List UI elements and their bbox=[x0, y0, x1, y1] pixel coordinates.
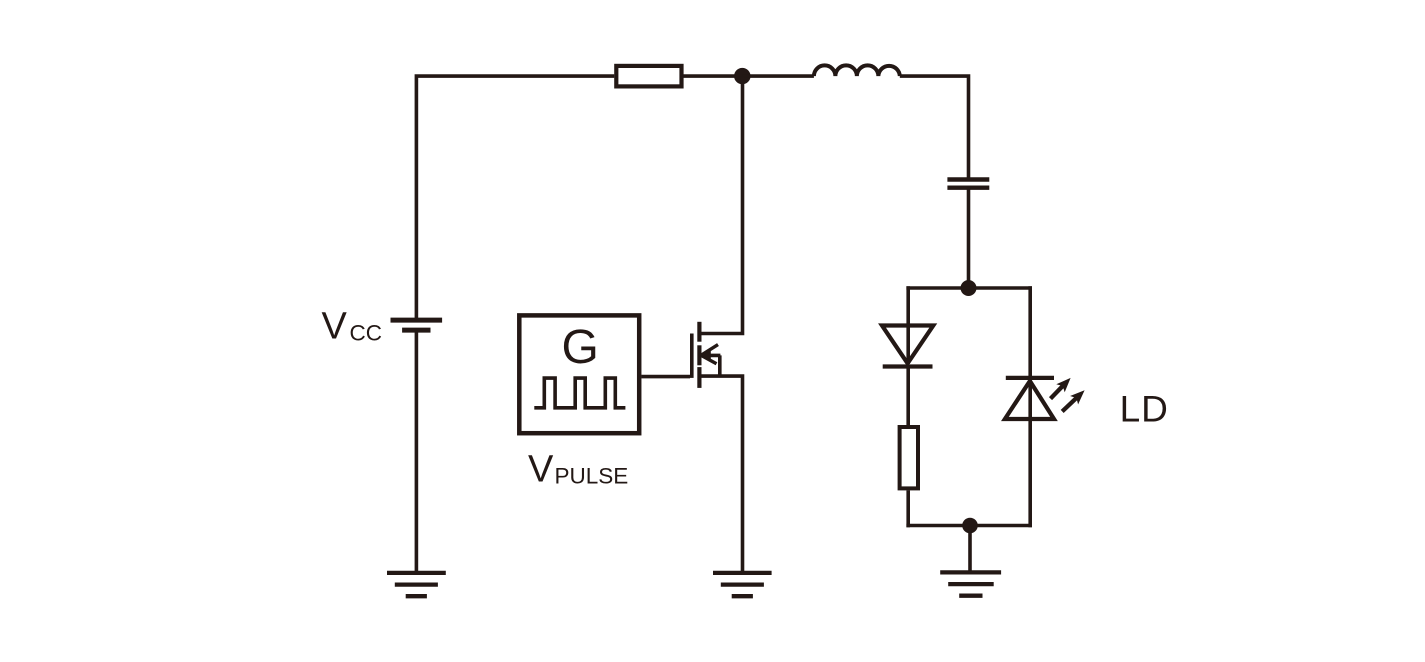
label Vcc bbox=[322, 306, 383, 348]
wire: R1 to node A bbox=[684, 74, 743, 78]
resistor R1 (series, top rail) bbox=[616, 66, 681, 87]
ground (output return) bbox=[940, 572, 1001, 595]
wire: D1 to resistor R2 bbox=[906, 367, 910, 428]
wire: node C to ground bbox=[968, 526, 972, 573]
wire: drain to node A bbox=[699, 76, 742, 333]
wire: node B top bar down to diode D1 bbox=[906, 286, 910, 364]
wire: source to ground bbox=[699, 376, 742, 573]
wire: Vcc positive rail (left vertical + top horizontal to R1) bbox=[416, 76, 614, 320]
wire: C1 to node B bbox=[967, 188, 971, 288]
battery Vcc bbox=[391, 320, 443, 330]
svg-text:V: V bbox=[322, 306, 348, 348]
pulse waveform symbol bbox=[534, 378, 625, 408]
diode D1 bbox=[882, 326, 933, 367]
wire: node A to inductor L1 bbox=[742, 74, 814, 78]
wire: parallel-section bottom bar bbox=[906, 524, 1032, 528]
wire: parallel-section top bar bbox=[906, 286, 1032, 290]
label Vpulse bbox=[528, 449, 628, 491]
svg-text:CC: CC bbox=[350, 321, 383, 346]
wire: generator output to gate bbox=[641, 375, 690, 379]
svg-text:PULSE: PULSE bbox=[555, 464, 629, 489]
wire: R2 to bottom bar bbox=[906, 490, 910, 527]
ground (Vcc) bbox=[387, 573, 446, 596]
node B (junction dot) bbox=[961, 280, 977, 296]
node A (junction dot) bbox=[734, 68, 750, 84]
transistor Q1 (N-channel MOSFET) bbox=[692, 322, 721, 388]
light-emission arrows of LD bbox=[1051, 378, 1085, 412]
node C (junction dot) bbox=[962, 518, 978, 534]
inductor L1 bbox=[814, 65, 900, 76]
pulse generator box bbox=[519, 315, 639, 433]
wire: inductor to capacitor C1 (corner) bbox=[900, 76, 969, 179]
resistor R2 (vertical) bbox=[900, 427, 918, 488]
wire: right branch through LD bbox=[1028, 286, 1032, 527]
svg-text:G: G bbox=[562, 321, 599, 374]
svg-text:LD: LD bbox=[1120, 389, 1169, 430]
capacitor C1 bbox=[947, 180, 989, 188]
ground (source) bbox=[713, 573, 772, 596]
svg-text:V: V bbox=[528, 449, 554, 491]
laser diode LD bbox=[1005, 378, 1054, 419]
wire: battery negative to ground bbox=[415, 330, 419, 573]
